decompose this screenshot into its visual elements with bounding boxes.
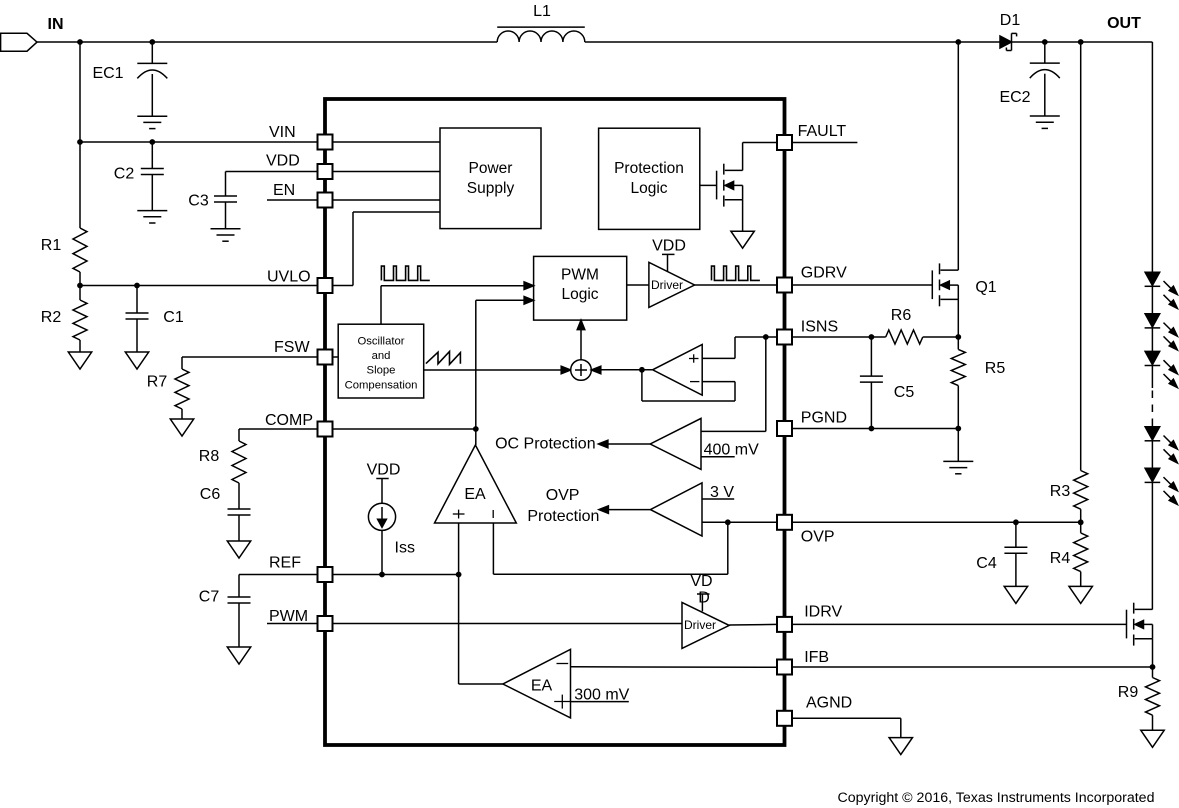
pin PWM xyxy=(269,608,333,631)
svg-text:R4: R4 xyxy=(1050,550,1071,567)
node UVLO / C1 xyxy=(134,283,140,289)
node PGND / R5 xyxy=(955,426,961,432)
svg-text:FAULT: FAULT xyxy=(798,123,847,140)
svg-text:3 V: 3 V xyxy=(710,484,734,501)
wire PGND down to ground xyxy=(957,429,959,462)
wire top rail left xyxy=(37,41,497,43)
VDD label IDRV driver xyxy=(690,573,712,611)
wire EA2 minus to IFB pin xyxy=(571,666,778,669)
wire UVLO rail xyxy=(80,285,318,287)
current source Iss xyxy=(367,462,415,575)
svg-text:L1: L1 xyxy=(533,3,551,20)
wire LED4-LED5 xyxy=(1151,441,1153,468)
svg-text:Logic: Logic xyxy=(561,286,598,303)
wire fault drain to FAULT pin xyxy=(743,143,777,171)
svg-text:GDRV: GDRV xyxy=(801,265,847,282)
pin VIN xyxy=(269,124,333,150)
wire AGND stub xyxy=(792,718,901,737)
wire LED5 to Q2 drain xyxy=(1151,482,1153,609)
wire COMP stub xyxy=(239,429,318,441)
label OUT xyxy=(1107,15,1141,32)
wire VIN to Power Supply xyxy=(333,141,441,143)
label 300 mV xyxy=(574,687,629,704)
resistor R3 xyxy=(1050,471,1088,523)
svg-text:Protection: Protection xyxy=(527,508,599,525)
capacitor EC1 xyxy=(92,42,167,116)
svg-text:Supply: Supply xyxy=(467,180,515,197)
ground AGND (triangle) xyxy=(889,738,912,755)
svg-text:VDD: VDD xyxy=(652,238,686,255)
svg-text:Iss: Iss xyxy=(395,540,415,557)
op-amp EA (error amplifier) xyxy=(435,445,517,523)
wire OVP 3V input stub xyxy=(702,498,734,500)
node top rail / R3 column xyxy=(1078,39,1084,45)
node top-rail / R1 column xyxy=(77,39,83,45)
ground EC2 (earth) xyxy=(1030,116,1060,128)
node EA plus / REF xyxy=(456,572,462,578)
IC boundary box xyxy=(325,99,785,745)
pin ISNS xyxy=(777,319,838,345)
svg-text:PGND: PGND xyxy=(801,409,847,426)
wire R3 column xyxy=(1080,42,1082,471)
svg-text:PWM: PWM xyxy=(269,608,308,625)
wire PWM stub xyxy=(267,623,318,625)
svg-text:and: and xyxy=(372,350,391,362)
capacitor C5 xyxy=(860,337,914,429)
svg-text:Slope: Slope xyxy=(367,364,396,376)
wire oscillator ramp to summer xyxy=(424,366,571,374)
pin AGND xyxy=(777,695,852,726)
capacitor C2 xyxy=(114,142,164,211)
svg-text:Protection: Protection xyxy=(614,160,684,177)
svg-text:IFB: IFB xyxy=(804,649,829,666)
pin OVP xyxy=(777,515,835,546)
pin EN xyxy=(273,182,333,208)
block Protection Logic xyxy=(599,128,700,229)
wire comparator plus input xyxy=(702,337,735,358)
wire FAULT stub outside xyxy=(792,142,857,144)
capacitor EC2 xyxy=(999,42,1059,116)
inductor L1 xyxy=(497,3,585,42)
svg-text:EA: EA xyxy=(464,486,486,503)
sawtooth waveform glyph xyxy=(426,352,461,365)
wire OUT column down to LEDs xyxy=(1151,42,1153,272)
wire GDRV to Q1 gate xyxy=(792,284,933,286)
resistor R1 xyxy=(41,142,87,286)
svg-text:FSW: FSW xyxy=(274,339,310,356)
node UVLO / R1-R2 xyxy=(77,283,83,289)
LED string diode 5 xyxy=(1145,468,1178,504)
svg-text:IDRV: IDRV xyxy=(804,604,842,621)
wire VDD to Power Supply xyxy=(333,171,441,173)
wire driver to IDRV pin xyxy=(729,623,777,626)
resistor R8 xyxy=(199,441,246,483)
node VIN / C2 xyxy=(149,139,155,145)
wire OVP output arrow xyxy=(599,506,651,514)
svg-text:R3: R3 xyxy=(1050,483,1071,500)
pin IFB xyxy=(777,649,829,675)
ground R4 (triangle) xyxy=(1069,586,1092,603)
wire EA output to PWM Logic xyxy=(476,297,534,446)
svg-text:EC1: EC1 xyxy=(92,65,123,82)
wire R1 column top xyxy=(79,42,81,142)
svg-text:R5: R5 xyxy=(985,360,1006,377)
resistor R9 xyxy=(1118,667,1160,730)
svg-text:R1: R1 xyxy=(41,237,62,254)
svg-text:EC2: EC2 xyxy=(999,89,1030,106)
node IFB / R9 xyxy=(1150,664,1156,670)
svg-text:EA: EA xyxy=(531,678,553,695)
svg-text:OVP: OVP xyxy=(546,487,580,504)
LED string diode 4 xyxy=(1145,427,1178,463)
transistor Q1 xyxy=(932,263,996,306)
op-amp EA2 (300 mV) xyxy=(503,649,571,718)
resistor R4 xyxy=(1050,522,1088,586)
wire UVLO to Power Supply xyxy=(333,212,441,286)
wire ISNS pin inside xyxy=(735,336,777,338)
svg-text:AGND: AGND xyxy=(806,695,852,712)
wire ISNS to R6 xyxy=(792,336,886,338)
wire comparator out to summer xyxy=(591,366,652,374)
comparator OVP protection xyxy=(650,483,702,536)
wire oscillator clock to PWM Logic xyxy=(381,282,534,324)
pin PGND xyxy=(777,409,847,436)
svg-text:Power: Power xyxy=(469,160,513,177)
wire LED2-LED3 xyxy=(1151,328,1153,352)
ground C1 (triangle) xyxy=(125,352,148,369)
label 3 V xyxy=(710,484,734,501)
node top rail / Q1 drain xyxy=(955,39,961,45)
capacitor C7 xyxy=(199,575,251,648)
svg-text:Driver: Driver xyxy=(684,618,716,632)
wire Q1 source down to ISNS node xyxy=(957,299,959,337)
pin UVLO xyxy=(267,269,333,294)
node OVP inside xyxy=(725,519,731,525)
svg-text:Q1: Q1 xyxy=(975,279,996,296)
node ISNS inside xyxy=(763,334,769,340)
node OVP / C4 xyxy=(1013,519,1019,525)
svg-text:OC Protection: OC Protection xyxy=(495,436,595,453)
block Power Supply xyxy=(440,128,541,229)
wire Q2 source to IFB node xyxy=(1152,639,1154,667)
wire VDD rail xyxy=(226,171,318,173)
svg-text:R2: R2 xyxy=(41,309,62,326)
svg-text:C5: C5 xyxy=(894,384,915,401)
svg-text:Compensation: Compensation xyxy=(345,379,418,391)
svg-text:R7: R7 xyxy=(147,374,168,391)
wire OVP rail outside xyxy=(792,521,1081,523)
summing junction xyxy=(571,360,592,381)
svg-text:OVP: OVP xyxy=(801,529,835,546)
wire OVP pin to comparator xyxy=(702,521,777,523)
svg-text:R9: R9 xyxy=(1118,684,1139,701)
resistor R5 xyxy=(951,337,1005,429)
wire dashed to LED4 xyxy=(1151,424,1153,427)
ground C4 (triangle) xyxy=(1004,586,1027,603)
resistor R2 xyxy=(41,286,87,353)
svg-text:VIN: VIN xyxy=(269,124,296,141)
wire OC 400mV input stub xyxy=(701,456,735,458)
diode D1 (schottky) xyxy=(1000,12,1021,51)
wire FSW stub xyxy=(182,357,318,369)
wire EN stub xyxy=(267,199,318,201)
pin REF xyxy=(269,555,333,583)
wire R6 to Q1 source node xyxy=(923,336,959,338)
wire PWM Logic to driver xyxy=(627,284,649,286)
transistor Q2 (IDRV NMOS) xyxy=(1127,603,1153,646)
node top-rail / EC1 xyxy=(149,39,155,45)
svg-text:R8: R8 xyxy=(199,448,220,465)
wire top rail right xyxy=(585,41,1153,43)
svg-text:400 mV: 400 mV xyxy=(704,442,759,459)
driver IDRV triangle xyxy=(682,602,729,648)
ground C6 (triangle) xyxy=(227,541,250,558)
svg-text:D1: D1 xyxy=(1000,12,1021,29)
wire FSW pin to oscillator xyxy=(333,356,339,358)
wire dashed LED continuation xyxy=(1151,391,1153,425)
svg-text:Copyright © 2016, Texas Instru: Copyright © 2016, Texas Instruments Inco… xyxy=(838,790,1155,806)
svg-text:Logic: Logic xyxy=(630,180,667,197)
wire comparator feedback xyxy=(642,370,735,401)
VDD label GDRV driver xyxy=(652,238,686,272)
svg-text:IN: IN xyxy=(48,16,64,33)
wire summer to PWM Logic xyxy=(577,320,585,360)
node OVP / R3-R4 xyxy=(1078,519,1084,525)
svg-text:COMP: COMP xyxy=(265,412,313,429)
svg-text:ISNS: ISNS xyxy=(801,319,838,336)
node VIN / R1 xyxy=(77,139,83,145)
svg-text:C1: C1 xyxy=(163,309,184,326)
capacitor C1 xyxy=(126,286,184,353)
copyright notice xyxy=(838,790,1155,806)
svg-text:VDD: VDD xyxy=(367,462,401,479)
ground R7 (triangle) xyxy=(170,419,193,436)
wire driver to GDRV pin xyxy=(695,284,777,286)
svg-text:PWM: PWM xyxy=(561,267,599,284)
wire REF stub xyxy=(239,574,318,576)
node COMP / EA output xyxy=(473,426,479,432)
ground EC1 (earth) xyxy=(137,116,167,128)
wire EA minus input xyxy=(493,523,727,574)
svg-text:C2: C2 xyxy=(114,166,135,183)
svg-text:D: D xyxy=(698,589,710,606)
wire PWM rail to driver xyxy=(333,623,683,625)
LED string diode 2 xyxy=(1145,314,1178,350)
pin IDRV xyxy=(777,604,842,632)
svg-text:UVLO: UVLO xyxy=(267,269,311,286)
node comparator output feedback xyxy=(639,367,645,373)
pin GDRV xyxy=(777,265,847,293)
ground PGND (earth) xyxy=(943,461,973,473)
wire PGND rail xyxy=(792,428,958,430)
node ISNS / C5 xyxy=(869,334,875,340)
pin COMP xyxy=(265,412,333,437)
label OVP Protection xyxy=(527,487,599,525)
svg-text:C4: C4 xyxy=(976,555,997,572)
ground C2 (earth) xyxy=(137,211,167,223)
label OC Protection xyxy=(495,436,595,453)
comparator current-sense xyxy=(653,345,703,396)
ground R2 (triangle) xyxy=(68,352,91,369)
block PWM Logic xyxy=(534,256,627,320)
node top rail / EC2 xyxy=(1042,39,1048,45)
label 400 mV xyxy=(704,442,759,459)
svg-text:EN: EN xyxy=(273,182,295,199)
node PGND / C5 xyxy=(869,426,875,432)
clock waveform glyph (oscillator) xyxy=(381,266,429,280)
wire LED1-LED2 xyxy=(1151,286,1153,314)
pin FSW xyxy=(274,339,333,365)
input port IN connector xyxy=(1,16,64,51)
capacitor C6 xyxy=(200,483,251,541)
wire COMP rail inside xyxy=(333,428,476,430)
clock waveform glyph (GDRV) xyxy=(712,266,760,280)
pin VDD xyxy=(266,153,333,180)
LED string diode 3 xyxy=(1145,351,1178,387)
wire OVP node down to REF-minus net xyxy=(727,522,729,574)
wire EN to Power Supply xyxy=(333,199,441,201)
wire OC plus input from ISNS xyxy=(701,337,766,431)
node Iss / REF xyxy=(379,572,385,578)
comparator OC protection xyxy=(650,418,701,469)
wire REF rail inside xyxy=(333,574,459,576)
svg-text:C3: C3 xyxy=(188,193,209,210)
wire VIN rail xyxy=(80,141,318,143)
node ISNS / R5 / Q1 source xyxy=(955,334,961,340)
svg-text:OUT: OUT xyxy=(1107,15,1141,32)
ground fault transistor (triangle) xyxy=(731,231,754,248)
wire EA2 300mV stub xyxy=(571,701,629,703)
driver GDRV triangle xyxy=(649,262,695,307)
wire IDRV to Q2 gate xyxy=(792,623,1127,625)
svg-text:300 mV: 300 mV xyxy=(574,687,629,704)
svg-text:VDD: VDD xyxy=(266,153,300,170)
svg-text:REF: REF xyxy=(269,555,301,572)
ground C7 (triangle) xyxy=(227,647,250,664)
pin FAULT xyxy=(777,123,846,150)
LED string diode 1 xyxy=(1145,272,1178,308)
resistor R6 xyxy=(886,307,923,344)
wire LED3 to dashed xyxy=(1151,366,1153,389)
svg-text:C7: C7 xyxy=(199,589,220,606)
svg-text:Driver: Driver xyxy=(651,278,683,292)
transistor fault NMOS xyxy=(700,164,743,207)
ground C3 (earth) xyxy=(211,229,241,241)
wire Q1 drain to top rail xyxy=(957,42,959,270)
svg-text:Oscillator: Oscillator xyxy=(357,335,404,347)
capacitor C4 xyxy=(976,522,1027,586)
wire IFB rail xyxy=(792,666,1153,668)
capacitor C3 xyxy=(188,172,237,229)
wire fault source down xyxy=(742,200,744,232)
svg-text:C6: C6 xyxy=(200,486,221,503)
svg-text:VD: VD xyxy=(690,573,712,590)
ground R9 (triangle) xyxy=(1141,730,1164,747)
block Oscillator and Slope Compensation xyxy=(338,324,424,398)
resistor R7 xyxy=(147,369,189,419)
svg-text:R6: R6 xyxy=(891,307,912,324)
wire EA plus input down xyxy=(459,523,503,684)
wire OC output arrow xyxy=(598,440,650,448)
